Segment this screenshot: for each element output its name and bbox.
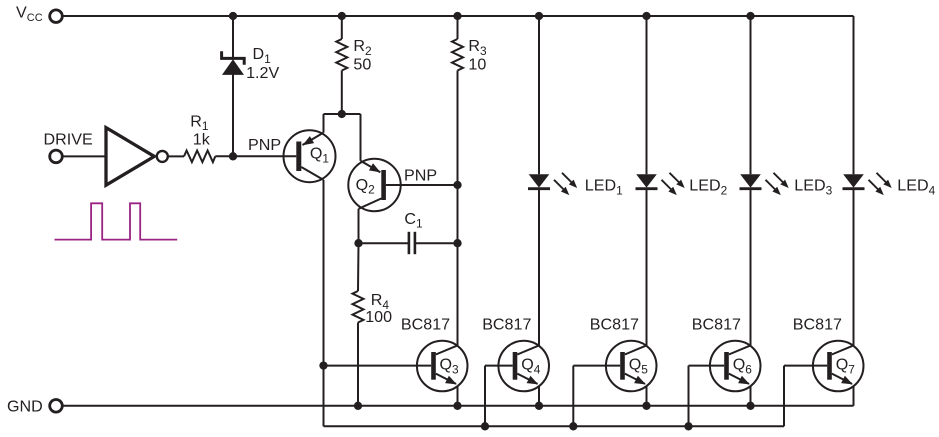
label BC817 Q6 xyxy=(692,316,741,334)
wire Q7 emitter xyxy=(853,386,855,406)
wire LED4 anode xyxy=(853,16,855,174)
wire inverter output xyxy=(168,155,184,157)
transistor Q7 xyxy=(784,341,864,392)
LED LED4 xyxy=(843,173,892,195)
wire Q1 base xyxy=(233,155,296,157)
label LED2 xyxy=(689,177,727,198)
svg-text:BC817: BC817 xyxy=(482,316,531,334)
label PNP Q2 xyxy=(404,166,437,184)
resistor R2 xyxy=(336,39,347,71)
svg-text:50: 50 xyxy=(353,55,371,73)
node Q6 base bus xyxy=(684,422,692,430)
node Q4em-GND xyxy=(535,402,543,410)
label LED3 xyxy=(794,177,832,198)
wire Q7 base riser xyxy=(783,366,785,427)
node LED3 top xyxy=(746,12,754,20)
wire base bus drop xyxy=(323,366,325,427)
wire R4 bottom xyxy=(357,323,359,406)
LED LED2 xyxy=(636,173,685,195)
wire Q6 base drop xyxy=(688,366,690,427)
label DRIVE xyxy=(44,130,93,148)
diode D1 xyxy=(222,51,245,75)
svg-text:BC817: BC817 xyxy=(793,316,842,334)
node C1 left xyxy=(354,239,362,247)
terminal DRIVE xyxy=(50,150,63,163)
waveform drive pulses xyxy=(55,203,178,239)
svg-text:BC817: BC817 xyxy=(692,316,741,334)
wire R2 top xyxy=(341,16,343,39)
wire LED2 cathode xyxy=(646,189,648,346)
wire LED4 cathode xyxy=(853,189,855,346)
node Q1col-Q3base xyxy=(319,361,327,369)
transistor Q3 xyxy=(324,341,468,392)
wire Q2 base xyxy=(386,184,458,186)
label BC817 Q4 xyxy=(482,316,531,334)
svg-text:BC817: BC817 xyxy=(590,316,639,334)
svg-text:100: 100 xyxy=(365,308,392,326)
wire Q2 collector down xyxy=(358,209,360,243)
wire D1 anode xyxy=(232,75,234,157)
transistor Q5 xyxy=(573,341,656,392)
node R2-emitters xyxy=(338,110,346,118)
label R1 xyxy=(190,112,209,133)
resistor R4 xyxy=(353,291,364,323)
resistor R1 xyxy=(184,151,215,163)
wire Q4 base drop xyxy=(484,366,486,427)
wire GND rail xyxy=(62,405,853,407)
node Q5 base bus xyxy=(569,422,577,430)
wire R3 down xyxy=(457,71,459,346)
wire Q5 emitter xyxy=(646,386,648,406)
wire D1 cathode xyxy=(232,16,234,58)
capacitor C1 xyxy=(409,232,415,254)
label BC817 Q5 xyxy=(590,316,639,334)
wire Q3 emitter xyxy=(457,386,459,406)
svg-text:BC817: BC817 xyxy=(401,316,450,334)
label 100 xyxy=(365,308,392,326)
wire base bus bottom xyxy=(324,425,785,427)
wire LED1 cathode xyxy=(538,189,540,346)
label R4 xyxy=(371,291,390,312)
label VCC xyxy=(16,3,43,24)
wire C1 left xyxy=(359,242,409,244)
svg-text:GND: GND xyxy=(7,397,43,415)
svg-text:10: 10 xyxy=(468,55,486,73)
label 10 xyxy=(468,55,486,73)
inverter U1 xyxy=(106,128,168,186)
label Q7 xyxy=(836,356,856,377)
svg-text:DRIVE: DRIVE xyxy=(44,130,93,148)
svg-text:PNP: PNP xyxy=(248,136,281,154)
LED LED1 xyxy=(528,173,577,195)
label Q5 xyxy=(629,356,649,377)
label Q1 xyxy=(310,145,330,166)
svg-text:PNP: PNP xyxy=(404,166,437,184)
wire C1 right xyxy=(415,242,458,244)
wire R1 to node xyxy=(215,155,233,157)
LED LED3 xyxy=(740,173,789,195)
label LED1 xyxy=(585,177,623,198)
label GND xyxy=(7,397,43,415)
wire inverter input xyxy=(62,155,106,157)
transistor Q2 xyxy=(348,159,400,211)
label D1 xyxy=(253,45,272,66)
wire R3 top xyxy=(457,16,459,39)
transistor Q6 xyxy=(689,341,761,392)
resistor R3 xyxy=(452,39,463,71)
node Q3em-GND xyxy=(453,402,461,410)
wire Q2 emitter up xyxy=(360,114,362,161)
wire LED1 anode xyxy=(538,16,540,174)
wire LED2 anode xyxy=(646,16,648,174)
node R4-GND xyxy=(354,402,362,410)
label BC817 Q7 xyxy=(793,316,842,334)
wire R4 top xyxy=(357,243,360,291)
label LED4 xyxy=(897,177,935,198)
label R3 xyxy=(468,37,487,58)
svg-text:1k: 1k xyxy=(193,130,211,148)
node LED1 top xyxy=(535,12,543,20)
node Q6em-GND xyxy=(746,402,754,410)
transistor Q1 xyxy=(284,130,336,182)
wire Q5 base drop xyxy=(572,366,574,427)
terminal GND xyxy=(50,400,63,413)
wire LED3 anode xyxy=(750,16,752,174)
node D1 top xyxy=(229,12,237,20)
wire Q1 collector down xyxy=(323,180,325,366)
label 1k xyxy=(193,130,211,148)
node R2 top xyxy=(338,12,346,20)
wire Q6 emitter xyxy=(750,386,752,406)
wire VCC top rail xyxy=(62,15,853,17)
label 1.2V xyxy=(246,64,279,82)
wire LED3 cathode xyxy=(750,189,752,346)
node Q4 base bus xyxy=(481,422,489,430)
node LED2 top xyxy=(642,12,650,20)
label Q4 xyxy=(521,356,541,377)
transistor Q4 xyxy=(485,341,549,392)
label Q6 xyxy=(733,356,753,377)
node R1-D1-Q1base xyxy=(229,152,237,160)
wire Q4 emitter xyxy=(538,386,540,406)
node C1 right xyxy=(453,239,461,247)
wire R2 bottom xyxy=(341,71,343,115)
label C1 xyxy=(404,210,423,231)
label Q3 xyxy=(440,356,460,377)
terminal VCC xyxy=(50,10,63,23)
label BC817 Q3 xyxy=(401,316,450,334)
node Q5em-GND xyxy=(642,402,650,410)
label R2 xyxy=(353,37,372,58)
node Q2base-R3 xyxy=(453,181,461,189)
label Q2 xyxy=(356,176,376,197)
wire Q1 emitter up xyxy=(323,114,325,133)
label PNP Q1 xyxy=(248,136,281,154)
wire emitter bus y114 xyxy=(324,113,361,115)
node R3 top xyxy=(453,12,461,20)
label 50 xyxy=(353,55,371,73)
svg-text:1.2V: 1.2V xyxy=(246,64,279,82)
